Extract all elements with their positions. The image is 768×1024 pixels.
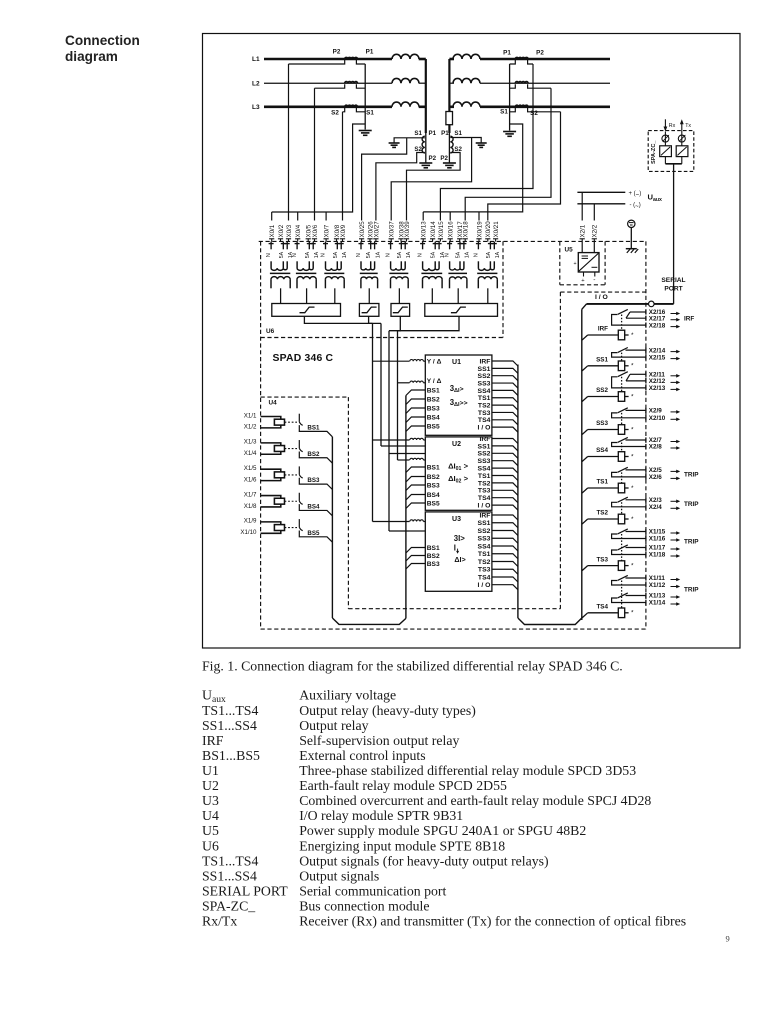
svg-text:U4: U4 [269,400,278,407]
wire S1 common to terminal bus A [272,124,366,212]
svg-text:Auxiliary voltage: Auxiliary voltage [299,688,396,703]
earthing resistor [446,112,453,125]
svg-text:TS3: TS3 [478,410,491,417]
svg-text:SPA-ZC_: SPA-ZC_ [202,899,255,914]
svg-text:BS1: BS1 [427,464,440,471]
svg-text:Self-supervision output relay: Self-supervision output relay [299,733,459,748]
svg-text:TS3: TS3 [478,567,491,574]
dashed link BS2 [285,448,298,450]
svg-text:S2: S2 [331,110,339,117]
neutral conductor left winding [425,59,427,133]
terminal bus A stub X0/7 [325,212,327,221]
svg-text:X1/13: X1/13 [649,593,666,600]
svg-text:U1: U1 [202,763,219,778]
svg-text:Fig. 1. Connection diagram for: Fig. 1. Connection diagram for the stabi… [202,658,623,673]
svg-text:U6: U6 [266,328,275,335]
svg-text:SS3: SS3 [596,420,608,427]
svg-text:X1/14: X1/14 [649,600,666,607]
svg-text:X0/13: X0/13 [421,221,428,238]
svg-text:5A: 5A [366,251,372,258]
output relay SS2 [630,373,646,375]
svg-text:BS2: BS2 [427,396,440,403]
svg-text:BS4: BS4 [427,414,440,421]
relay coil SS4 [582,457,588,462]
svg-text:Power supply module SPGU 240A1: Power supply module SPGU 240A1 or SPGU 4… [299,823,586,838]
svg-text:X0/3: X0/3 [286,224,293,237]
wire S2 right L3 route to terminal [488,112,561,221]
transformer T5 secondary lead [398,288,400,304]
svg-text:I / O: I / O [478,503,491,510]
svg-text:SS4: SS4 [478,466,491,473]
svg-text:X1/16: X1/16 [649,536,666,543]
Rx receiver symbol [662,135,669,142]
SPA-ZC bus connection module box [648,131,694,172]
svg-text:X2/1: X2/1 [580,224,587,237]
wire CT L3 S2 hook to X0 drop [343,108,345,112]
transformer T8 primary winding [478,268,494,270]
CT primary bumps L1 right group [515,57,528,59]
wire BS branch [406,503,425,509]
svg-text:1A: 1A [406,251,412,258]
svg-text:TS1: TS1 [596,479,608,486]
svg-text:P1: P1 [429,130,437,137]
wire serial line [673,164,675,304]
transformer T3 core [324,272,344,274]
wire S2 drop L1 left group [288,64,290,221]
svg-text:U3: U3 [202,793,219,808]
svg-text:X0/4: X0/4 [295,224,302,237]
svg-text:5A: 5A [279,251,285,258]
svg-text:X2/3: X2/3 [649,497,662,504]
svg-text:5A: 5A [486,251,492,258]
svg-text:5A: 5A [397,251,403,258]
transformer T7 secondary winding [450,277,467,279]
svg-text:S1: S1 [454,130,462,137]
svg-text:BS1...BS5: BS1...BS5 [202,748,260,763]
wire X2/2 drop [593,204,595,221]
switch BS2 [298,440,300,448]
svg-text:X2/15: X2/15 [649,354,666,361]
transformer T4 primary winding [361,268,375,270]
transformer T7 core [448,272,467,274]
svg-text:BS2: BS2 [427,553,440,560]
svg-text:TRIP: TRIP [684,587,699,594]
winding coil L1 left [392,54,419,59]
svg-text:ΔI>: ΔI> [454,555,465,564]
output relay TS2 [626,499,646,501]
svg-text:S2: S2 [530,110,538,117]
Rx opto square [660,146,672,157]
Tx arrow [681,123,683,132]
svg-text:X2/2: X2/2 [592,224,599,237]
svg-text:SS1: SS1 [596,357,608,364]
svg-text:TS4: TS4 [478,574,491,581]
svg-text:SS2: SS2 [478,451,491,458]
diagram frame [203,34,741,649]
transformer T6 secondary lead [431,288,433,304]
wire BS branch [406,495,425,501]
svg-text:X0/37: X0/37 [389,221,396,238]
transformer T1 primary winding [271,268,287,270]
relay module U2 box [425,437,492,510]
wire CT L3 S1 hook [356,108,365,112]
wire BS branch [406,417,425,423]
svg-text:9: 9 [726,934,730,944]
switch BS3 [298,466,300,474]
svg-text:I: I [454,544,456,553]
svg-text:X1/12: X1/12 [649,582,666,589]
wire BS5 output [299,531,332,543]
output relay SS4 [626,439,646,441]
svg-text:N: N [292,253,298,257]
binary input BS3 coupler [261,469,281,480]
svg-text:3ΔI>>: 3ΔI>> [450,398,468,408]
bus module outputs [517,365,519,619]
transformer T2 secondary winding [297,277,316,280]
svg-text:BS4: BS4 [307,503,320,510]
phase line L3 right section [449,106,454,109]
svg-text:P2: P2 [429,155,437,162]
transformer T3 input taps [325,242,327,250]
transformer T1 input taps [270,242,272,250]
wire U3 input 1 [373,521,410,523]
svg-text:SS1: SS1 [478,366,491,373]
svg-text:X1/8: X1/8 [244,503,257,510]
wire BS branch [406,485,425,491]
svg-text:X2/13: X2/13 [649,385,666,392]
transformer T2 core [296,272,316,274]
svg-text:SS1...SS4: SS1...SS4 [202,868,257,883]
serial connector [649,301,655,307]
transformer T5 core [389,272,408,274]
svg-text:N: N [386,253,392,257]
svg-text:Tx: Tx [685,123,691,129]
wire S1 common left group [364,64,366,130]
wire X2/1 drop [581,192,583,220]
transformer T1 secondary winding [271,277,290,280]
svg-text:SERIAL: SERIAL [661,277,685,284]
svg-text:TS2: TS2 [478,559,491,566]
svg-text:5A: 5A [431,251,437,258]
svg-text:1A: 1A [342,251,348,258]
transformer T3 secondary lead [334,288,336,304]
svg-text:Output signals: Output signals [299,868,379,883]
svg-text:X2/4: X2/4 [649,504,662,511]
transformer T2 input taps [296,242,298,250]
svg-text:SS1...SS4: SS1...SS4 [202,718,257,733]
svg-text:L3: L3 [252,104,260,111]
protective earth [628,220,635,227]
U3 output cascade wires [492,515,518,520]
transformer T4 input taps [360,242,362,250]
Tx transmitter symbol [678,135,685,142]
module U6 dashed box [502,241,504,337]
transformer T5 primary winding [391,268,406,270]
svg-text:X1/15: X1/15 [649,529,666,536]
svg-text:N: N [356,253,362,257]
transformer T8 secondary lead [487,288,489,304]
svg-text:U1: U1 [452,359,461,366]
transformer T4 secondary lead [368,288,370,304]
transformer T4 core [360,272,378,274]
wire bottom route left [332,618,406,624]
transformer T8 core [477,272,497,274]
transformer T4 secondary winding [361,277,378,279]
earthing CT 2 secondary winding [450,136,453,153]
wire SPA-ZC internal [664,132,666,146]
svg-text:U3: U3 [452,516,461,523]
bus V5 [397,331,399,460]
svg-text:I / O: I / O [478,425,491,432]
svg-text:5A: 5A [456,251,462,258]
svg-text:TS1: TS1 [478,473,491,480]
terminal bus B stub X0/19 [478,212,480,221]
ground earthing CT 2 primary [443,162,456,164]
wire S2 right L1 route to terminal [440,64,533,221]
svg-text:S2: S2 [414,146,422,153]
svg-text:Rx/Tx: Rx/Tx [202,914,237,929]
svg-text:BS3: BS3 [427,405,440,412]
CT primary bumps L3 left group [345,105,358,107]
svg-text:IRF: IRF [598,326,608,333]
svg-text:SS4: SS4 [478,388,491,395]
bus V1 [372,323,374,521]
svg-text:X0/18: X0/18 [463,221,470,238]
svg-text:X1/6: X1/6 [244,476,257,483]
svg-text:TRIP: TRIP [684,471,699,478]
wire CT L2 S1 hook [356,84,365,88]
svg-text:Output relay: Output relay [299,718,368,733]
wire CT L2 S2 hook to X0 drop [315,84,345,88]
svg-text:X2/10: X2/10 [649,415,666,422]
svg-text:P1: P1 [366,49,374,56]
svg-text:TS2: TS2 [478,403,491,410]
svg-text:SPA-ZC_: SPA-ZC_ [651,140,657,164]
wire S1 common right to terminal bus B [423,124,523,212]
svg-text:SS1: SS1 [478,520,491,527]
wire S2 right L2 route to terminal [465,88,551,220]
svg-text:TS3: TS3 [478,488,491,495]
svg-text:N: N [418,253,424,257]
svg-text:BS2: BS2 [427,474,440,481]
svg-text:X0/27: X0/27 [373,221,380,238]
transformer T1 core [270,272,290,274]
relay module U1 box [425,355,492,435]
svg-text:BS3: BS3 [427,482,440,489]
wire BS branch [406,399,425,405]
wire switch box4 output to V5 [398,316,460,330]
svg-text:SS2: SS2 [596,387,608,394]
Tx opto square [676,146,688,157]
svg-text:U5: U5 [202,823,219,838]
svg-text:S1: S1 [500,109,508,116]
wire U2 input 1 [373,439,410,441]
wire earthing CT 1 S1 to ground and X0/25 [394,138,425,143]
svg-text:SS2: SS2 [478,528,491,535]
CT primary bumps L3 right group [515,105,528,107]
dashed link BS4 [285,500,298,502]
svg-text:BS2: BS2 [307,451,320,458]
svg-text:X0/1: X0/1 [269,224,276,237]
switch box 3 [391,304,410,317]
wire U3 input return [389,530,410,532]
svg-text:S2: S2 [454,146,462,153]
winding coil L1 right [453,54,480,59]
svg-text:1A: 1A [465,251,471,258]
output relay TS3 [626,531,646,533]
svg-text:TS1...TS4: TS1...TS4 [202,853,258,868]
wire BS1 output [299,425,332,437]
svg-text:Y / Δ: Y / Δ [427,359,442,366]
svg-text:SERIAL PORT: SERIAL PORT [202,883,288,898]
svg-text:BS1: BS1 [427,387,440,394]
svg-text:External control inputs: External control inputs [299,748,425,763]
svg-text:Y / Δ: Y / Δ [427,378,442,385]
winding coil L3 right [453,102,480,107]
wire CT L2 right S2 hook [528,84,551,88]
wire BS branch [406,426,425,432]
svg-text:1A: 1A [495,251,501,258]
wire BS branch [406,467,425,473]
svg-text:X0/16: X0/16 [448,221,455,238]
wire earthing CT 1 S2 to X0/27 [376,153,425,221]
svg-text:Three-phase stabilized differe: Three-phase stabilized differential rela… [299,763,636,778]
transformer T3 secondary winding [325,277,344,280]
dashed link BS5 [285,527,298,529]
svg-text:X0/14: X0/14 [430,221,437,238]
svg-text:X2/6: X2/6 [649,474,662,481]
svg-text:BS5: BS5 [307,530,320,537]
svg-text:X0/39: X0/39 [404,221,411,238]
output relay TS4 [626,577,646,579]
svg-text:TS1...TS4: TS1...TS4 [202,703,258,718]
binary input BS4 coupler [261,496,281,507]
wire U1 input 2 [398,382,410,384]
svg-text:SS3: SS3 [478,380,491,387]
svg-text:IRF: IRF [684,316,694,323]
svg-text:Receiver (Rx) and transmitter: Receiver (Rx) and transmitter (Tx) for t… [299,914,686,930]
bus relay coils [582,304,587,309]
IO section dashed boundary [560,291,646,293]
wire earthing CT 2 S2 to X0/39 [407,153,461,221]
svg-text:TRIP: TRIP [684,539,699,546]
bus V2 [380,323,382,446]
svg-text:TS3: TS3 [596,556,608,563]
wire BS branch [406,477,425,483]
transformer T2 secondary lead [306,288,308,304]
svg-text:BS3: BS3 [427,561,440,568]
svg-text:TS2: TS2 [478,480,491,487]
svg-text:diagram: diagram [65,49,118,64]
output relay IRF [630,311,646,313]
transformer T5 input taps [390,242,392,250]
output relay SS3 [626,409,646,411]
transformer T2 primary winding [297,268,313,270]
CT primary bumps L2 right group [515,82,528,84]
transformer T7 secondary lead [457,288,459,304]
svg-text:X1/1: X1/1 [244,412,257,419]
wire CT L1 S2 hook to X0 drop [289,60,345,64]
transformer T6 core [421,272,442,274]
transformer T1 secondary lead [280,288,282,304]
wire CT L3 right S2 hook [528,108,561,112]
terminal bus A stub X0/4 [297,212,299,221]
svg-text:X0/25: X0/25 [359,221,366,238]
svg-text:N: N [473,253,479,257]
svg-text:X1/10: X1/10 [240,529,257,536]
winding coil L2 right [453,78,480,83]
wire switch box1 output to V1 [304,316,372,323]
binary input BS5 coupler [261,522,281,533]
wire switch box3 output to V3 [389,316,400,330]
wire BS3 output [299,478,332,490]
wire U2 input return 1 [381,445,410,447]
svg-text:P1: P1 [441,130,449,137]
svg-text:Output signals (for heavy-duty: Output signals (for heavy-duty output re… [299,853,548,869]
svg-text:TS4: TS4 [478,417,491,424]
svg-text:X1/2: X1/2 [244,424,257,431]
wire U2 input return 2 [389,453,410,455]
svg-text:P1: P1 [503,50,511,57]
relay coil TS2 [582,519,588,524]
svg-text:S1: S1 [414,130,422,137]
ground left CT group [359,130,372,132]
svg-text:X0/20: X0/20 [485,221,492,238]
wire S2 drop L3 left group [342,112,344,221]
U5 output stubs [583,272,585,277]
svg-text:-: - [593,276,595,283]
wire S2 drop L2 left group [314,88,316,220]
switch box 1 (U6 group A) [272,304,341,317]
svg-text:X0/15: X0/15 [438,221,445,238]
svg-text:PORT: PORT [664,286,682,293]
svg-text:X2/8: X2/8 [649,444,662,451]
svg-text:X1/5: X1/5 [244,465,257,472]
wire bottom route right [518,618,582,625]
svg-text:SS2: SS2 [478,373,491,380]
svg-text:+: + [574,261,577,267]
switch BS4 [298,493,300,501]
legend table [202,688,686,930]
svg-text:TS1: TS1 [478,395,491,402]
svg-text:SS3: SS3 [478,536,491,543]
svg-text:X1/17: X1/17 [649,545,666,552]
bus U4 outputs [331,437,333,618]
svg-text:TRIP: TRIP [684,501,699,508]
svg-text:BS3: BS3 [307,477,320,484]
transformer T6 primary winding [423,268,440,270]
svg-text:X0/19: X0/19 [476,221,483,238]
svg-text:1A: 1A [375,251,381,258]
svg-text:TS4: TS4 [596,604,608,611]
transformer T6 input taps [422,242,424,250]
winding coil L2 left [392,78,419,83]
wire I/O line [587,303,649,305]
CT primary bumps L2 left group [345,82,358,84]
svg-text:U2: U2 [452,441,461,448]
svg-text:X1/18: X1/18 [649,552,666,559]
relay coil SS2 [582,397,588,402]
svg-text:U5: U5 [565,247,574,254]
bus V3 [388,331,390,531]
svg-text:5A: 5A [305,251,311,258]
U1 output cascade wires [492,361,518,366]
wire U2 input 2 [398,459,410,461]
svg-text:N: N [321,253,327,257]
svg-text:L1: L1 [252,56,260,63]
output relay TS1 [626,469,646,471]
svg-text:Bus connection module: Bus connection module [299,899,429,914]
